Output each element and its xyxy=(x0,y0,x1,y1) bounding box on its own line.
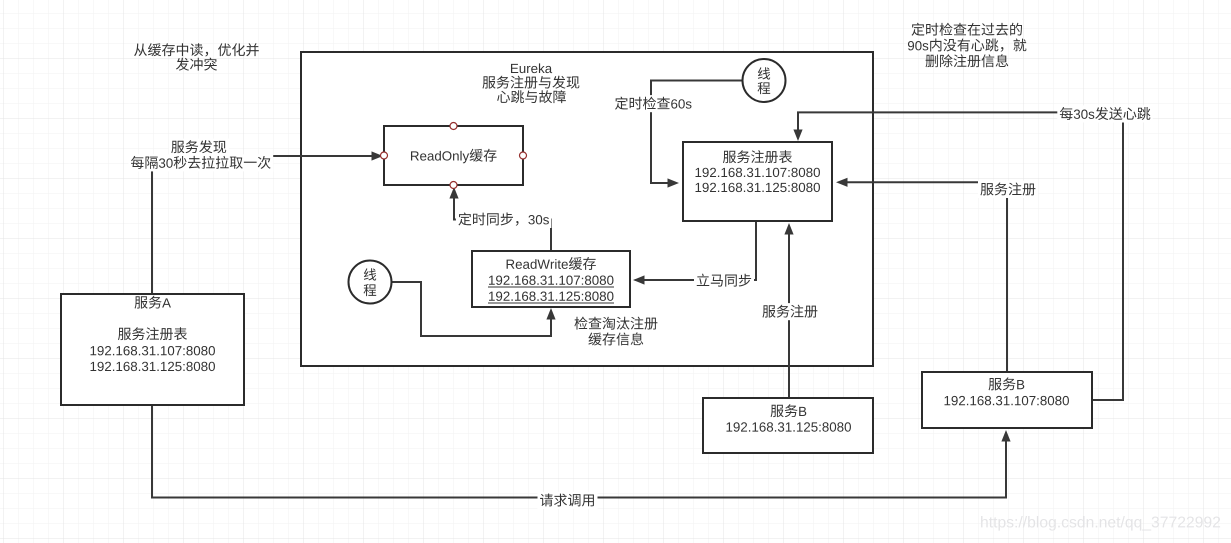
label: ReadWrite缓存 xyxy=(507,257,596,270)
box: 服务B right xyxy=(922,372,1092,428)
edge label: 定时同步，30s xyxy=(456,211,552,228)
label: 服务A 服务注册表 xyxy=(118,327,187,340)
box: ReadWrite缓存 xyxy=(472,251,630,307)
box: 服务注册表 xyxy=(683,142,832,221)
label: 服务A ip2 xyxy=(91,362,215,371)
thread circle left text 程 xyxy=(364,284,377,296)
circle: thread left 线程 xyxy=(349,261,392,304)
wire: 定时检查60s (thread circle to 服务注册表 left) xyxy=(651,81,742,184)
wire: 定时同步30s (ReadWrite top to ReadOnly bottom port) xyxy=(454,198,551,251)
wire: 立马同步 (服务注册表 bottom to ReadWrite right) xyxy=(644,222,756,280)
label: 服务注册表 title xyxy=(723,150,792,163)
thread circle left text 线 xyxy=(364,268,376,280)
label: ReadWrite ip1 underlined xyxy=(489,275,613,284)
wire: 服务注册 right (服务B right top to 服务注册表 right) xyxy=(847,182,1007,371)
wire: 每30s发送心跳 (服务B right to 服务注册表 top) xyxy=(798,112,1123,400)
thread circle top text 线 xyxy=(758,67,770,79)
eureka container box xyxy=(301,52,873,366)
label: 发冲突 (line2) xyxy=(176,58,217,71)
edge label: 缓存信息 (line2) xyxy=(586,331,646,348)
label: 服务B(bottom) title xyxy=(771,404,807,417)
label: 服务注册表 ip2 xyxy=(696,183,820,192)
label: 服务注册表 ip1 xyxy=(696,168,820,177)
wire: left thread circle to ReadWrite bottom xyxy=(392,282,551,336)
edge label: 每30s发送心跳 xyxy=(1057,105,1153,122)
label: ReadOnly缓存 xyxy=(411,149,497,164)
label: 定时检查在过去的 (line1) xyxy=(912,23,1023,36)
edge label: 服务注册 (right) xyxy=(978,181,1038,198)
box: ReadOnly缓存 xyxy=(384,126,523,185)
box: 服务A xyxy=(61,294,244,405)
label: 删除注册信息 (line3) xyxy=(926,54,1009,67)
label: 90s内没有心跳，就 (line2) xyxy=(908,39,1026,52)
wire: 请求调用 (服务A bottom to 服务B right bottom) xyxy=(152,405,1006,498)
label: 服务B(right) ip xyxy=(945,396,1069,405)
box: 服务B bottom xyxy=(703,398,873,453)
label: 服务A title xyxy=(135,296,171,309)
edge label: 立马同步 xyxy=(694,272,754,289)
label: ReadWrite ip2 underlined xyxy=(489,291,613,300)
edge label: 请求调用 xyxy=(538,492,598,509)
edge label: 每隔30秒去拉拉取一次 xyxy=(128,154,273,171)
edge label: 定时检查60s xyxy=(613,95,695,112)
edge label: 检查淘汰注册 (line1) xyxy=(572,315,660,332)
wire: 服务发现 (服务A top to ReadOnly left port) xyxy=(152,156,372,294)
edge label: 服务发现 xyxy=(169,139,229,156)
label: 服务A ip1 xyxy=(91,346,215,355)
label: 服务B(bottom) ip xyxy=(727,422,851,431)
Eureka title line2 xyxy=(482,76,579,89)
Eureka title line1 xyxy=(511,63,552,73)
wire: 服务注册 bottom (服务B bottom to 服务注册表 bottom) xyxy=(788,234,790,397)
circle: thread top 线程 xyxy=(743,59,786,102)
watermark csdn url xyxy=(981,516,1220,531)
thread circle top text 程 xyxy=(758,82,771,94)
label: 从缓存中读，优化并发冲突 (line1) xyxy=(134,43,259,56)
connection ports on ReadOnly box (red circles) xyxy=(450,123,457,130)
label: 服务B(right) title xyxy=(989,377,1025,390)
edge label: 服务注册 (bottom) xyxy=(760,303,820,320)
Eureka title line3 xyxy=(497,90,566,103)
